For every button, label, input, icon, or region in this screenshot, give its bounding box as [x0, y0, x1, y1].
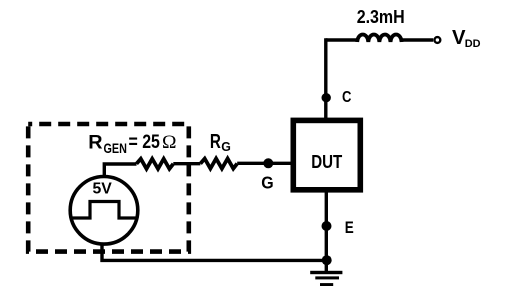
label DUT	[311, 151, 342, 172]
svg-text:= 25: = 25	[129, 132, 161, 153]
resistor RG zigzag	[200, 159, 237, 169]
pulse source V1 circle	[70, 177, 138, 245]
terminal VDD open circle	[435, 37, 441, 43]
inductor L 2.3mH	[357, 34, 401, 42]
label 2.3mH	[357, 6, 405, 27]
label E	[345, 218, 354, 237]
svg-text:Ω: Ω	[162, 132, 177, 153]
label VDD	[452, 27, 481, 50]
svg-text:2.3mH: 2.3mH	[357, 6, 405, 27]
node G junction dot	[263, 158, 273, 168]
label C	[342, 89, 352, 106]
node ground junction dot	[322, 255, 332, 265]
wire top rail horizontal VDD	[326, 38, 433, 41]
wire from source top to RGEN	[104, 164, 136, 177]
svg-text:GEN: GEN	[104, 141, 127, 156]
label 5V	[93, 181, 113, 198]
wire vertical rail to DUT collector	[324, 38, 327, 118]
svg-text:E: E	[345, 218, 354, 237]
ground symbol	[310, 271, 342, 286]
wire source bottom return	[102, 243, 327, 260]
pulse waveform symbol	[71, 202, 137, 219]
svg-text:DD: DD	[465, 38, 481, 50]
wire RG to DUT gate	[237, 162, 293, 165]
svg-text:G: G	[261, 172, 273, 192]
label G	[261, 172, 273, 192]
svg-text:DUT: DUT	[311, 151, 342, 172]
resistor RGEN zigzag	[137, 159, 174, 169]
label RGEN = 25ohm	[88, 132, 176, 156]
node E junction dot	[322, 221, 332, 231]
DUT box U1	[293, 120, 360, 189]
label RG	[210, 131, 231, 154]
svg-text:R: R	[210, 131, 221, 153]
svg-text:C: C	[342, 89, 352, 106]
svg-text:5V: 5V	[93, 181, 113, 198]
wire RGEN to RG	[173, 162, 200, 165]
svg-text:R: R	[88, 132, 102, 154]
dashed generator box	[28, 124, 189, 252]
wire DUT emitter down to ground	[325, 192, 328, 271]
svg-text:G: G	[221, 139, 231, 154]
node C junction dot	[322, 93, 331, 102]
